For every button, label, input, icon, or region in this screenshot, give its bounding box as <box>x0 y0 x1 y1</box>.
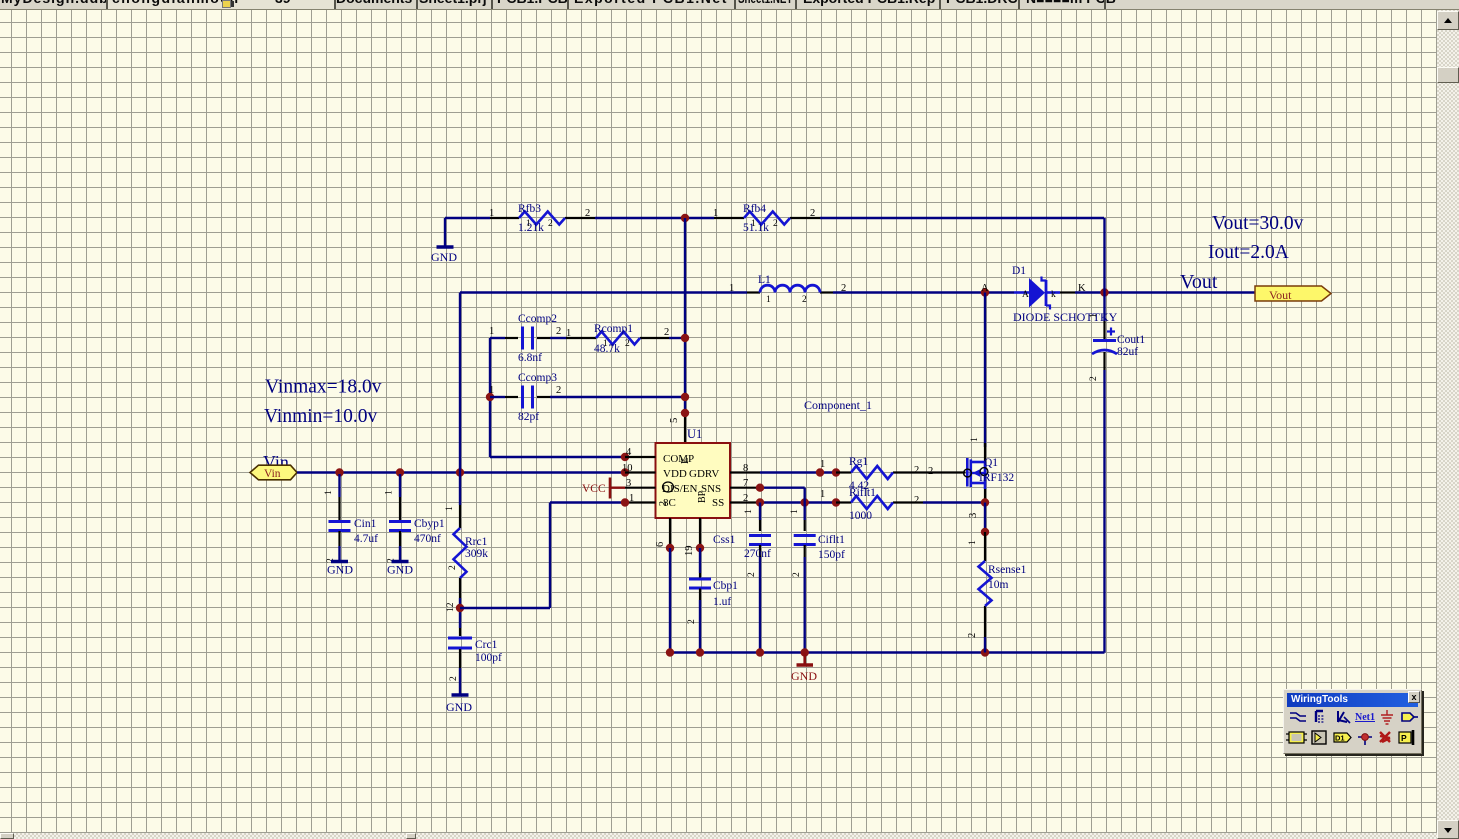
U1 pin 2 SS stub <box>730 493 760 504</box>
svg-text:7: 7 <box>743 478 748 489</box>
U1 pin 8 GDRV stub <box>730 463 760 474</box>
ground GND under Crc1 <box>446 695 472 714</box>
svg-text:Net1: Net1 <box>1355 712 1375 723</box>
svg-text:2: 2 <box>585 208 590 219</box>
junction output node at right bus <box>1100 288 1108 296</box>
wire COMP node vertical <box>684 218 686 413</box>
svg-text:270nf: 270nf <box>744 548 771 560</box>
svg-text:1: 1 <box>489 385 494 396</box>
svg-text:1: 1 <box>526 219 531 229</box>
svg-text:82uf: 82uf <box>1117 346 1138 358</box>
svg-text:DIS/EN: DIS/EN <box>662 483 698 495</box>
transistor Q1 IRF132 <box>964 443 1015 489</box>
junction at U1 pin7 <box>756 484 764 492</box>
junction Q1 source node <box>981 498 989 506</box>
svg-text:1: 1 <box>751 219 756 229</box>
svg-text:19: 19 <box>684 546 695 557</box>
svg-text:DIODE SCHOTTKY: DIODE SCHOTTKY <box>1013 310 1118 324</box>
wire Rcomp1 to comp bus <box>669 337 685 339</box>
junction Vin at Cin1 <box>335 468 343 476</box>
ground GND top-left power port <box>431 218 457 264</box>
wire drain node vertical <box>984 293 986 448</box>
wire Ccomp2 to Rcomp1 <box>550 337 566 339</box>
svg-text:2: 2 <box>928 466 933 477</box>
ground GND power port maroon <box>791 653 817 684</box>
junction Vin at Cbyp1 <box>396 468 404 476</box>
svg-text:1: 1 <box>629 493 634 504</box>
svg-text:Cbp1: Cbp1 <box>713 580 738 592</box>
svg-text:6.8nf: 6.8nf <box>518 352 542 364</box>
svg-text:VDD: VDD <box>663 468 687 480</box>
svg-text:Vinmin=10.0v: Vinmin=10.0v <box>264 406 378 427</box>
svg-text:1: 1 <box>489 208 494 219</box>
svg-text:Rfb3: Rfb3 <box>518 203 541 215</box>
svg-text:Rrc1: Rrc1 <box>465 536 488 548</box>
svg-text:1: 1 <box>968 540 978 545</box>
junction Vin at U1 pin 10 <box>621 468 629 476</box>
junction Vin at left rail <box>456 468 464 476</box>
svg-text:8: 8 <box>743 463 748 474</box>
wire ground rail <box>670 651 1105 653</box>
svg-text:2: 2 <box>556 385 561 396</box>
U1 pin 9 BP stub <box>684 518 700 556</box>
resistor Rfb3 <box>489 203 595 234</box>
svg-text:SS: SS <box>712 497 724 509</box>
svg-text:2: 2 <box>747 572 757 577</box>
junction rail at GND <box>801 648 809 656</box>
wire right bus vertical <box>1103 218 1105 321</box>
svg-text:1: 1 <box>790 509 800 514</box>
svg-text:1: 1 <box>970 437 980 442</box>
svg-text:k: k <box>1051 290 1056 300</box>
svg-text:82pf: 82pf <box>518 411 539 423</box>
junction BP node <box>696 544 704 552</box>
svg-text:1: 1 <box>489 326 494 337</box>
svg-text:1: 1 <box>713 208 718 219</box>
svg-text:2: 2 <box>625 339 630 349</box>
port Vout <box>1255 286 1331 302</box>
U1 pin 10 VDD stub <box>622 463 656 474</box>
wire comp network left vertical <box>489 338 491 457</box>
wire Ccomp3 to comp bus <box>550 396 685 398</box>
wire comp to U1 pin4 <box>490 456 625 458</box>
svg-text:12: 12 <box>446 602 456 612</box>
junction rail at Cbp1 <box>696 648 704 656</box>
svg-text:GND: GND <box>791 669 817 683</box>
power port VCC <box>582 478 625 499</box>
ground GND under Cbyp1 <box>387 562 413 577</box>
svg-text:2: 2 <box>658 501 669 506</box>
wire Q1 source to node <box>984 489 986 503</box>
svg-text:Cin1: Cin1 <box>354 518 377 530</box>
svg-text:2: 2 <box>802 295 807 305</box>
svg-text:10: 10 <box>622 463 633 474</box>
svg-text:150pf: 150pf <box>818 549 845 561</box>
svg-text:Riflt1: Riflt1 <box>849 487 876 499</box>
svg-text:1.21k: 1.21k <box>518 222 544 234</box>
wire Rrc1 to Crc1 <box>459 598 461 628</box>
svg-text:BP: BP <box>697 490 708 503</box>
capacitor Cbyp1 <box>385 474 445 563</box>
svg-text:Component_1: Component_1 <box>804 398 872 412</box>
svg-text:VCC: VCC <box>582 483 606 495</box>
svg-text:1: 1 <box>820 459 825 470</box>
svg-text:5: 5 <box>669 418 680 423</box>
junction rail at pin6 <box>666 648 674 656</box>
U1 pin 1 RC stub <box>625 493 656 504</box>
junction comp bus lower <box>681 393 689 401</box>
resistor Rrc1 <box>445 505 488 598</box>
svg-text:D1: D1 <box>1012 265 1026 277</box>
svg-text:Vout: Vout <box>1269 288 1292 302</box>
svg-text:2: 2 <box>1089 376 1099 381</box>
wire right bus lower vertical <box>1103 370 1105 653</box>
svg-text:1: 1 <box>766 295 771 305</box>
wire Vin rail <box>297 471 625 473</box>
ground GND under Cin1 <box>327 562 353 577</box>
junction at U1 pin 1 <box>621 498 629 506</box>
junction RC node <box>456 604 464 612</box>
svg-text:Rfb4: Rfb4 <box>743 203 766 215</box>
svg-text:2: 2 <box>773 219 778 229</box>
svg-text:1: 1 <box>1089 313 1099 318</box>
svg-text:3: 3 <box>626 478 631 489</box>
svg-text:1000: 1000 <box>849 510 872 522</box>
wire RC node to U1 pin1 vertical <box>549 503 551 609</box>
junction Rsense top <box>981 528 989 536</box>
svg-text:Vinmax=18.0v: Vinmax=18.0v <box>265 377 382 398</box>
wire U1 pin8 to Rg1 <box>760 471 836 473</box>
svg-text:Iout=2.0A: Iout=2.0A <box>1208 242 1289 263</box>
svg-text:Vout=30.0v: Vout=30.0v <box>1212 213 1304 234</box>
wire from Rfb4 to right bus <box>820 217 1104 219</box>
svg-text:1: 1 <box>445 506 455 511</box>
svg-text:P: P <box>1401 733 1407 743</box>
junction ss node at pin2 <box>756 498 764 506</box>
junction rail at Rsense1 <box>981 648 989 656</box>
wire Rg1 to Q1 gate <box>923 471 966 473</box>
svg-text:2: 2 <box>548 219 553 229</box>
svg-text:2: 2 <box>810 208 815 219</box>
wire U1 pin 5 stub <box>669 413 685 443</box>
junction comp bus upper <box>681 334 689 342</box>
svg-text:2: 2 <box>967 633 978 638</box>
svg-text:1: 1 <box>324 490 334 495</box>
U1 pin names <box>658 453 724 509</box>
svg-text:GND: GND <box>446 700 472 714</box>
junction at U1 pin5 <box>681 409 689 417</box>
svg-text:1: 1 <box>566 328 571 339</box>
svg-text:2: 2 <box>448 565 458 570</box>
svg-text:1: 1 <box>603 339 608 349</box>
port Vin <box>250 465 297 480</box>
svg-text:309k: 309k <box>465 548 488 560</box>
svg-text:Vout: Vout <box>1180 271 1218 293</box>
svg-text:470nf: 470nf <box>414 533 441 545</box>
junction node COMP feedback <box>681 214 689 222</box>
resistor Rcomp1 <box>566 323 669 355</box>
svg-text:Crc1: Crc1 <box>475 639 498 651</box>
wire RC node to U1 pin1 top <box>550 501 625 503</box>
svg-text:2: 2 <box>914 495 919 506</box>
svg-text:Rcomp1: Rcomp1 <box>594 323 633 335</box>
svg-text:Rg1: Rg1 <box>849 456 868 468</box>
svg-text:Vin: Vin <box>264 468 281 480</box>
svg-text:2: 2 <box>687 619 697 624</box>
svg-text:1: 1 <box>744 509 754 514</box>
svg-text:10m: 10m <box>988 579 1009 591</box>
resistor Rg1 <box>820 456 923 492</box>
U1 pin 7 ISNS stub <box>730 478 760 489</box>
wire diode cathode to Vout port <box>1075 291 1255 293</box>
junction gate drive b <box>832 468 840 476</box>
capacitor Ciflt1 <box>790 503 845 653</box>
svg-text:A: A <box>981 283 989 294</box>
svg-text:Rsense1: Rsense1 <box>988 564 1027 576</box>
svg-text:2: 2 <box>792 572 802 577</box>
svg-text:Css1: Css1 <box>713 534 736 546</box>
svg-text:A: A <box>1022 290 1029 300</box>
wire U1 pin7 to ilim <box>760 488 805 503</box>
wire switch node from left rail to L1 <box>460 291 747 293</box>
U1 pin 4 COMP stub <box>625 447 656 458</box>
svg-text:2: 2 <box>914 465 919 476</box>
wire top feedback net left segment <box>445 217 490 219</box>
svg-text:2: 2 <box>449 676 459 681</box>
svg-text:2: 2 <box>664 327 669 338</box>
svg-text:1: 1 <box>729 283 734 294</box>
resistor Riflt1 <box>820 487 923 522</box>
wire U1 pin2 to Riflt1 <box>760 501 836 503</box>
svg-text:Ccomp3: Ccomp3 <box>518 372 557 384</box>
svg-text:GDRV: GDRV <box>689 468 719 480</box>
svg-text:1: 1 <box>385 490 395 495</box>
junction gate drive a <box>816 468 824 476</box>
junction comp left at Ccomp3 <box>486 393 494 401</box>
svg-text:Cbyp1: Cbyp1 <box>414 518 445 530</box>
svg-text:Q1: Q1 <box>984 457 998 469</box>
capacitor Cbp1 <box>687 548 738 653</box>
wire pin6 to ground rail <box>669 548 671 653</box>
resistor Rsense1 <box>967 532 1027 638</box>
svg-text:1.uf: 1.uf <box>713 596 731 608</box>
capacitor Ccomp2 <box>489 313 561 364</box>
capacitor Css1 <box>713 503 771 653</box>
wire Rsense1 to ground rail <box>984 637 986 653</box>
svg-text:3: 3 <box>968 513 979 518</box>
diode D1 DIODE SCHOTTKY <box>1012 265 1118 324</box>
wire left rail vertical to Rrc1 <box>459 473 461 506</box>
op-amp controller U1 TPS40200 body <box>656 427 731 518</box>
capacitor Cout1 polarized <box>1089 313 1145 381</box>
capacitor Cin1 <box>324 474 378 563</box>
svg-text:100pf: 100pf <box>475 652 502 664</box>
wire L1 to diode anode <box>833 291 1014 293</box>
svg-text:Ccomp2: Ccomp2 <box>518 313 557 325</box>
wire left rail vertical upper <box>459 293 461 473</box>
junction pin6 node <box>666 544 674 552</box>
wire RC node to U1 pin1 horizontal <box>460 607 550 609</box>
junction rail at Css1 <box>756 648 764 656</box>
junction at U1 pin4 <box>621 453 629 461</box>
svg-text:GND: GND <box>431 250 457 264</box>
junction ilim node b <box>832 498 840 506</box>
svg-text:D1: D1 <box>1335 734 1345 743</box>
junction ilim node a <box>801 498 809 506</box>
svg-text:Cout1: Cout1 <box>1117 334 1145 346</box>
svg-text:GND: GND <box>387 563 413 577</box>
wire source node to Rsense1 <box>984 503 986 533</box>
svg-text:4: 4 <box>626 447 632 458</box>
junction diode anode / Q1 drain node <box>981 288 989 296</box>
svg-text:L1: L1 <box>758 274 771 286</box>
svg-text:U1: U1 <box>687 427 702 441</box>
svg-text:4.7uf: 4.7uf <box>354 533 378 545</box>
resistor Rfb4 <box>713 203 820 234</box>
svg-text:2: 2 <box>743 493 748 504</box>
svg-text:E: E <box>680 458 691 464</box>
U1 pin 3 DIS/EN stub <box>625 478 656 489</box>
inductor L1 <box>729 274 846 305</box>
svg-text:IRF132: IRF132 <box>979 472 1014 484</box>
svg-text:GND: GND <box>327 563 353 577</box>
svg-text:2: 2 <box>556 326 561 337</box>
svg-text:1: 1 <box>820 489 825 500</box>
capacitor Ccomp3 <box>489 372 561 423</box>
capacitor Crc1 <box>448 628 502 694</box>
svg-text:6: 6 <box>655 542 666 547</box>
svg-text:Ciflt1: Ciflt1 <box>818 534 845 546</box>
wire Riflt1 to Q1 source node <box>923 501 985 503</box>
U1 pin 6 GND stub <box>655 518 670 548</box>
svg-text:51.1k: 51.1k <box>743 222 769 234</box>
wire between Rfb3 and Rfb4 <box>595 217 714 219</box>
